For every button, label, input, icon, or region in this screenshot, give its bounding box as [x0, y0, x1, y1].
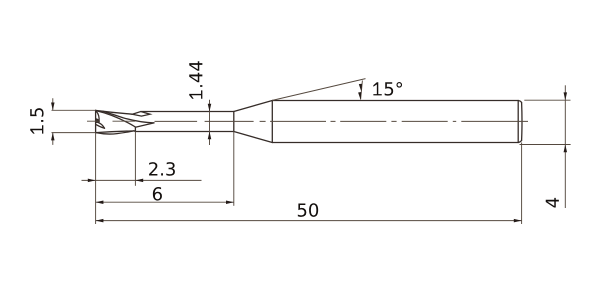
gash lower arc	[96, 125, 105, 129]
flute helix line D2	[103, 111, 154, 123]
label 4	[546, 198, 559, 208]
neck end extension line	[233, 131, 235, 205]
label 1.5	[30, 108, 43, 134]
shank end extension line	[521, 143, 523, 225]
cutter tip face	[95, 110, 97, 132]
shank top line	[272, 100, 518, 102]
flute helix line D1	[96, 111, 136, 127]
centerline	[87, 120, 528, 122]
arrowhead 4 bottom	[564, 145, 568, 153]
gash upper arc	[98, 122, 105, 128]
shank chamfer edge	[517, 101, 519, 143]
arrowhead 2.3 right	[135, 179, 143, 183]
dia 1.5 top extension line	[52, 109, 96, 111]
shank bottom line	[272, 142, 518, 144]
flute end edge	[134, 127, 136, 131]
dia 4 top extension line	[524, 99, 570, 101]
angle arrowhead upper	[359, 84, 362, 92]
arrowhead 2.3 left	[88, 179, 96, 183]
dia 1.44 dimension line	[209, 100, 211, 145]
label 2.3	[149, 162, 175, 176]
taper bottom edge	[234, 132, 272, 143]
shank top chamfer	[518, 101, 521, 103]
flute length extension line	[134, 131, 136, 185]
angle arrowhead lower	[358, 92, 361, 100]
shank bottom chamfer	[518, 140, 521, 142]
end cutting edge	[96, 111, 99, 122]
end tooth land rhombus	[132, 112, 150, 117]
label 1.44	[189, 61, 202, 99]
dia 1.5 bottom extension line	[52, 132, 96, 134]
cutter top edge	[96, 110, 133, 114]
arrowhead 4 top	[564, 92, 568, 100]
arrowhead 6 right	[226, 200, 234, 204]
arrowhead 1.5 top	[51, 103, 55, 111]
flute heel line	[135, 123, 154, 127]
dim 2.3 dimension line	[82, 179, 202, 181]
dia 4 dimension line	[564, 85, 566, 208]
arrowhead 50 right	[514, 219, 522, 223]
dim 6 dimension line	[96, 201, 234, 203]
arrowhead 50 left	[96, 219, 104, 223]
label 15deg	[373, 82, 402, 96]
tip extension line	[95, 133, 97, 224]
leaf to neck connector	[134, 130, 135, 133]
arrowhead 1.5 bottom	[51, 133, 55, 141]
dia 1.5 dimension line	[52, 98, 54, 145]
label 6	[153, 187, 162, 201]
taper top edge	[234, 101, 272, 112]
label 50	[298, 203, 318, 217]
shank end face	[521, 103, 523, 141]
arrowhead 1.44 top	[208, 104, 212, 112]
bottom land leaf upper arc	[96, 131, 134, 133]
arrowhead 6 left	[96, 200, 104, 204]
dim 50 dimension line	[96, 220, 522, 222]
15deg arc shaft	[361, 81, 363, 100]
end tooth dark face	[96, 119, 99, 123]
neck bottom line	[135, 131, 233, 133]
bottom land leaf lower arc	[96, 131, 134, 134]
shank start edge	[271, 101, 273, 143]
dia 4 bottom extension line	[520, 144, 571, 146]
arrowhead 1.44 bottom	[208, 132, 212, 140]
neck top line	[141, 111, 234, 113]
15deg angle extension line	[272, 79, 365, 101]
neck end edge	[233, 112, 235, 132]
